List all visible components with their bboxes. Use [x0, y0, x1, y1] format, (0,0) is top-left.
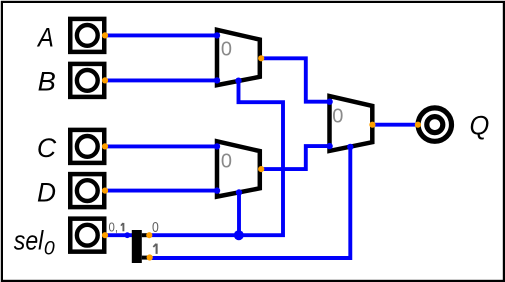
node splitter bit0 [146, 232, 152, 238]
svg-text:0: 0 [221, 39, 232, 61]
svg-text:0: 0 [152, 220, 159, 236]
node pin C output [102, 143, 108, 149]
node MUX1 in0 [214, 32, 220, 38]
node MUX3 in0 [326, 99, 332, 105]
splitter main width label 0,1 [109, 220, 124, 235]
multiplexer U1 (A/B) [217, 30, 260, 85]
node MUX3 select [347, 144, 353, 150]
svg-text:Q: Q [470, 110, 490, 140]
label B [38, 67, 56, 97]
label Q [470, 110, 490, 140]
node MUX3 in1 [326, 143, 332, 149]
node pin B output [102, 77, 108, 83]
wire MUX2 out to MUX3 in1 [261, 146, 330, 169]
label C [37, 133, 57, 163]
node splitter bit1 [147, 254, 153, 260]
wire C to MUX2 in0 [104, 144, 217, 148]
multiplexer U2 (C/D) [217, 141, 260, 196]
node junction on select net [234, 230, 244, 240]
input pin sel0 [70, 219, 104, 252]
node MUX2 in0 [214, 143, 220, 149]
splitter bit 1 label [153, 244, 156, 254]
node MUX3 output [369, 122, 375, 128]
node MUX1 select [235, 78, 241, 84]
multiplexer U3 (output stage) [330, 96, 373, 151]
node MUX1 output [258, 55, 264, 61]
wire junction to MUX2 select [237, 192, 241, 235]
svg-text:B: B [38, 67, 56, 97]
node MUX2 output [258, 166, 264, 172]
input pin B [70, 64, 104, 97]
svg-text:0,: 0, [109, 220, 119, 235]
node pin D output [102, 188, 108, 194]
svg-text:0: 0 [332, 105, 343, 127]
node pin A output [102, 32, 108, 38]
node pin sel0 output [102, 232, 108, 238]
svg-text:A: A [36, 22, 54, 52]
node MUX2 select [236, 189, 242, 195]
node pin Q input [415, 122, 421, 128]
label D [37, 178, 56, 208]
node MUX2 in1 [214, 187, 220, 193]
wire D to MUX2 in1 [104, 189, 217, 193]
wire MUX3 out to pin Q [372, 123, 417, 127]
svg-text:0: 0 [44, 238, 55, 260]
wire splitter bit0 to MUX1/MUX2 select net [149, 80, 283, 235]
splitter bit 0 label [152, 220, 159, 236]
wire A to MUX1 in0 [104, 33, 217, 37]
input pin C [70, 130, 104, 163]
input pin A [70, 19, 104, 52]
output pin Q [418, 108, 451, 141]
input pin D [70, 174, 104, 207]
svg-text:sel: sel [14, 226, 44, 256]
wire MUX1 out to MUX3 in0 [261, 58, 330, 101]
svg-text:0: 0 [221, 150, 232, 172]
label A [36, 22, 54, 52]
label sel0 [14, 226, 55, 260]
svg-text:D: D [37, 178, 56, 208]
svg-text:C: C [37, 133, 57, 163]
wire B to MUX1 in1 [104, 78, 217, 82]
wire sel0 to splitter main [104, 233, 132, 237]
node MUX1 in1 [214, 77, 220, 83]
wire splitter bit1 to MUX3 select [149, 147, 350, 258]
splitter SP1 [124, 230, 149, 263]
